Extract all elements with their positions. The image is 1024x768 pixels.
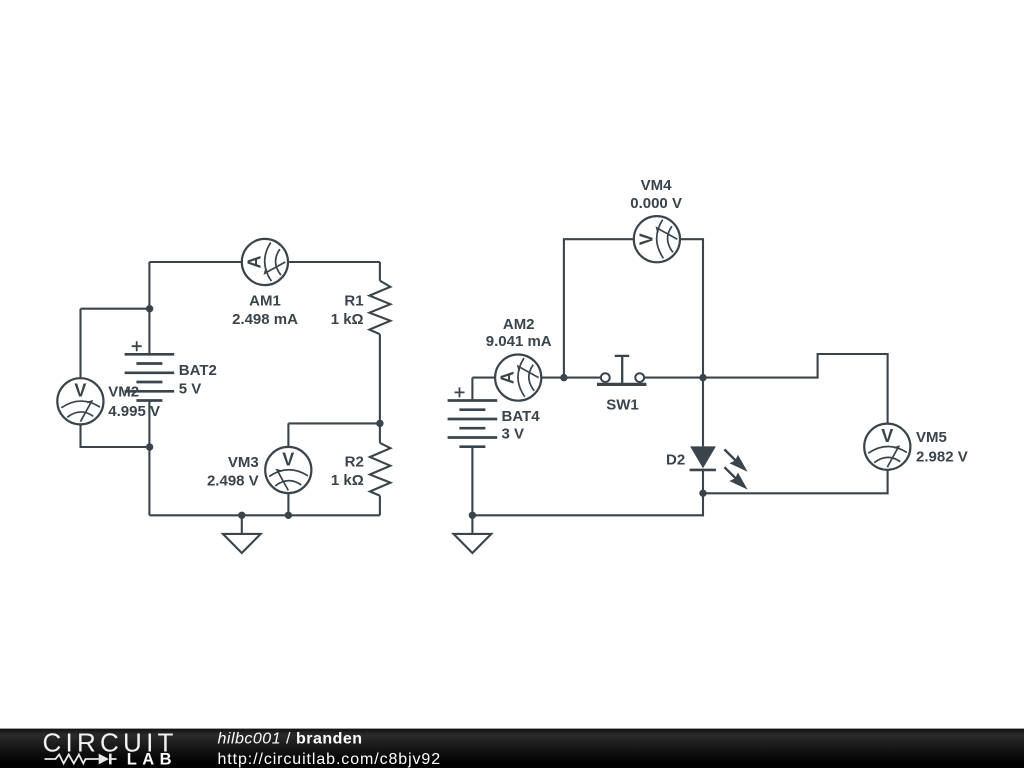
resistor R1 [369, 281, 390, 335]
voltmeter VM2 [57, 378, 103, 424]
LED D2 light arrows [724, 449, 747, 489]
label AM2 [486, 316, 552, 350]
wire [379, 334, 381, 443]
wire [471, 378, 473, 401]
ground [223, 515, 261, 553]
wire [81, 308, 150, 310]
voltmeter VM3 [265, 447, 311, 493]
svg-text:AM2: AM2 [503, 316, 535, 333]
wire [680, 239, 703, 377]
svg-text:VM5: VM5 [916, 429, 947, 446]
svg-text:BAT2: BAT2 [179, 362, 217, 379]
svg-text:3 V: 3 V [502, 425, 525, 442]
junction [146, 443, 153, 450]
wire [379, 496, 381, 516]
wire [471, 447, 473, 516]
wire [288, 422, 380, 424]
wire [379, 262, 381, 281]
svg-text:SW1: SW1 [606, 397, 639, 414]
wire [287, 493, 289, 515]
svg-text:R1: R1 [344, 292, 363, 309]
label VM3 [207, 454, 259, 489]
svg-text:9.041 mA: 9.041 mA [486, 333, 552, 350]
wire [644, 354, 888, 424]
ammeter AM1 [242, 239, 288, 285]
svg-text:2.498 V: 2.498 V [207, 472, 259, 489]
junction [146, 305, 153, 312]
svg-text:5 V: 5 V [179, 380, 202, 397]
wire [79, 309, 81, 379]
svg-text:LAB: LAB [127, 751, 177, 768]
svg-text:1 kΩ: 1 kΩ [331, 472, 364, 489]
label AM1 [232, 292, 298, 328]
ammeter AM2 [495, 355, 541, 401]
junction [469, 512, 476, 519]
svg-text:V: V [74, 381, 86, 401]
svg-text:V: V [636, 233, 656, 245]
svg-text:2.498 mA: 2.498 mA [232, 311, 298, 328]
wire [148, 262, 150, 354]
junction [285, 512, 292, 519]
svg-text:A: A [244, 256, 264, 269]
voltmeter VM4 [634, 216, 680, 262]
wire [149, 514, 380, 516]
ground [454, 515, 492, 553]
svg-text:0.000 V: 0.000 V [630, 195, 682, 212]
svg-text:2.982 V: 2.982 V [916, 448, 968, 465]
label R2 [331, 454, 364, 489]
svg-text:D2: D2 [666, 452, 685, 469]
svg-text:V: V [881, 426, 893, 446]
footer bar [0, 729, 1024, 768]
battery BAT4 [448, 387, 498, 446]
switch SW1 [597, 356, 646, 385]
junction [560, 374, 567, 381]
wire [81, 424, 150, 447]
wire [472, 377, 495, 379]
wire [472, 493, 703, 515]
svg-text:hilbc001 / branden: hilbc001 / branden [218, 731, 363, 748]
resistor R2 [370, 443, 391, 496]
svg-text:VM4: VM4 [641, 177, 673, 194]
LED D2 [690, 446, 716, 493]
battery BAT2 [125, 341, 175, 400]
wire [149, 261, 241, 263]
label BAT4 [502, 408, 541, 442]
voltmeter VM5 [864, 424, 910, 470]
svg-text:1 kΩ: 1 kΩ [331, 311, 364, 328]
label VM4 [630, 177, 682, 212]
wire [287, 423, 289, 447]
svg-text:A: A [498, 371, 518, 384]
svg-text:AM1: AM1 [249, 292, 281, 309]
wire [148, 401, 150, 516]
label VM5 [916, 429, 968, 465]
junction [699, 374, 706, 381]
junction [238, 512, 245, 519]
wire [288, 261, 380, 263]
svg-text:http://circuitlab.com/c8bjv92: http://circuitlab.com/c8bjv92 [218, 751, 442, 768]
junction [699, 490, 706, 497]
wire [703, 470, 888, 494]
svg-text:VM2: VM2 [108, 384, 139, 401]
wire [564, 239, 634, 377]
svg-text:BAT4: BAT4 [502, 408, 541, 425]
svg-text:VM3: VM3 [228, 454, 259, 471]
label VM2 [108, 384, 160, 420]
svg-text:R2: R2 [345, 454, 364, 471]
label BAT2 [179, 362, 217, 398]
svg-text:V: V [282, 449, 294, 469]
label R1 [331, 292, 364, 328]
svg-text:4.995 V: 4.995 V [108, 403, 160, 420]
wire [541, 377, 601, 379]
wire [702, 378, 704, 447]
junction [376, 420, 383, 427]
CircuitLab logo resistor-diode [45, 754, 117, 765]
